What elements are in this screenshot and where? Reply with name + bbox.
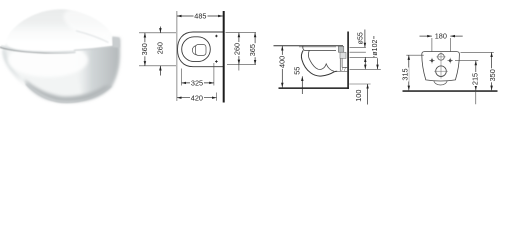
- dimension Ø55: [358, 30, 365, 48]
- dimension 260 left (outside arrows): [156, 27, 165, 76]
- extension lines for 180: [432, 38, 450, 51]
- dimension 485: [177, 12, 223, 21]
- back box right edge line: [118, 39, 120, 57]
- extension line bottom-left y=65.8: [139, 65, 176, 67]
- svg-text:ø55: ø55: [358, 32, 365, 44]
- outlet circle with crosshair: [434, 66, 448, 77]
- body bottom edge line: [26, 84, 111, 102]
- extension line 420 right: [216, 93, 218, 101]
- lid ridge line: [76, 31, 109, 43]
- mounting block light: [340, 52, 346, 58]
- svg-text:350: 350: [488, 69, 497, 81]
- lid bottom edge right: [74, 46, 113, 50]
- dimension 100: [354, 84, 368, 105]
- shadow seam under lid: [0, 47, 75, 53]
- dimension 315: [401, 55, 410, 90]
- toilet body rear outline: [422, 52, 460, 81]
- svg-text:420: 420: [191, 93, 203, 102]
- extension line 350: [461, 51, 494, 53]
- fixing point marker bottom: [215, 60, 217, 62]
- pipe tick y=57.3: [350, 56, 378, 58]
- outlet pipe lines: [337, 67, 347, 71]
- trap half-ellipse: [434, 80, 447, 85]
- drain circle: [192, 46, 201, 55]
- svg-text:315: 315: [401, 68, 410, 80]
- dimension 360: [140, 33, 149, 66]
- extension line top-right y=32.6: [226, 32, 257, 34]
- pipe tick y=52.2: [350, 51, 366, 53]
- dimension 55: [293, 67, 303, 94]
- svg-text:365: 365: [248, 44, 257, 56]
- svg-text:215: 215: [471, 73, 480, 85]
- extension line bottom-right y=64.3: [227, 63, 256, 65]
- toilet outline (top view): [178, 32, 225, 67]
- dimension Ø102: [371, 36, 379, 57]
- svg-text:260: 260: [232, 43, 241, 55]
- extension line 325 left: [181, 69, 183, 86]
- seat opening oval: [182, 37, 211, 62]
- bowl top highlight: [8, 43, 88, 77]
- rim line: [304, 49, 336, 51]
- body bottom shadow arc: [24, 79, 112, 102]
- dimension 420: [177, 93, 217, 102]
- svg-text:325: 325: [191, 79, 203, 88]
- fixing point marker top: [215, 35, 217, 37]
- floor line (bold): [403, 90, 498, 92]
- mounting block dark: [338, 46, 344, 52]
- svg-text:400: 400: [278, 56, 287, 68]
- outlet verticals: [340, 51, 342, 72]
- outer pipe dimension line: [377, 58, 379, 69]
- wall line (bold): [347, 32, 349, 89]
- lid dome right highlight: [59, 3, 116, 45]
- svg-text:360: 360: [140, 43, 149, 55]
- svg-text:ø102: ø102: [372, 40, 379, 56]
- lid underside band: [1, 46, 75, 52]
- drain rounded square: [196, 44, 207, 55]
- svg-text:260: 260: [156, 42, 165, 54]
- dimension 215: [471, 61, 480, 105]
- pipe tick y=47.4: [350, 46, 366, 48]
- body lower-left edge band: [26, 81, 54, 100]
- back box corner patch right of lid tip: [112, 37, 119, 48]
- extension tick 215: [455, 60, 478, 62]
- dimension 180 (outside arrows): [420, 32, 463, 41]
- svg-text:485: 485: [194, 12, 206, 21]
- fixing hole left (diamond): [429, 58, 435, 64]
- pipe tick y=84: [349, 83, 370, 85]
- dimension 400: [278, 46, 287, 88]
- body left edge shading: [3, 49, 27, 86]
- extension line top-left y=32.8: [139, 32, 176, 34]
- inlet circle with crosshair: [436, 52, 445, 78]
- seat front edge: [303, 46, 305, 51]
- wall line (bold): [223, 11, 225, 103]
- toilet body (bowl + integrated back): [3, 37, 120, 103]
- mid pipe dimension line: [364, 58, 366, 70]
- svg-text:55: 55: [293, 67, 302, 75]
- extension line left vertical x=177: [176, 11, 178, 101]
- body right-side shadow: [76, 38, 120, 101]
- lid outer dome: [6, 9, 113, 51]
- dimension 350: [488, 52, 497, 90]
- svg-text:100: 100: [354, 90, 363, 102]
- seat top line: [274, 46, 344, 47]
- extension tick 315: [406, 54, 424, 56]
- extension line 325 right: [213, 63, 215, 86]
- dimension 365: [248, 33, 257, 65]
- bowl inner profile: [308, 50, 333, 71]
- dimension 260 right: [232, 33, 241, 71]
- fixing hole right (diamond): [447, 58, 453, 64]
- svg-text:180: 180: [435, 32, 447, 41]
- bowl outer profile: [301, 50, 337, 76]
- floor line (bold): [279, 87, 349, 89]
- dimension 325: [182, 79, 214, 88]
- pipe tick y=69.3: [350, 68, 381, 70]
